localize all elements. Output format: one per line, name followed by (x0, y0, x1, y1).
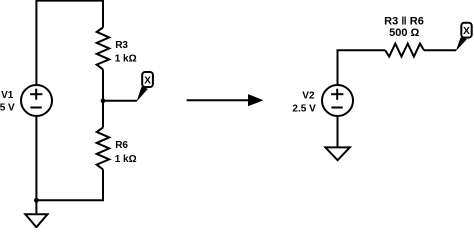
resistor R3 (97, 28, 110, 70)
resistor R6 (97, 128, 110, 170)
ground (right) (325, 147, 349, 160)
svg-text:R3: R3 (115, 40, 128, 51)
voltage source V2 (322, 85, 353, 116)
junction dot node X (101, 98, 106, 103)
wire: R3 bottom to R6 top through node (102, 70, 104, 128)
svg-text:1 kΩ: 1 kΩ (115, 154, 137, 165)
svg-text:5 V: 5 V (0, 103, 15, 114)
junction dot bottom-left (34, 198, 39, 203)
svg-text:V2: V2 (302, 90, 315, 101)
svg-text:R6: R6 (115, 140, 128, 151)
ground (left) (25, 200, 47, 227)
svg-text:2.5 V: 2.5 V (292, 104, 316, 115)
wire: V1 bottom to bottom rail and up to R6 bottom (36, 117, 103, 201)
wire: resistor to node flag X (424, 49, 456, 51)
svg-text:500 Ω: 500 Ω (389, 27, 419, 39)
wire: node X stub to flag (103, 100, 137, 102)
wire: V2 bottom to ground (337, 117, 339, 148)
arrow (circuit transformation) (187, 94, 264, 106)
svg-text:X: X (463, 26, 470, 37)
wire: top rail from V1 top up and across to R3 branch (36, 1, 103, 85)
svg-text:X: X (144, 76, 151, 87)
svg-text:V1: V1 (1, 90, 14, 101)
svg-text:R3 ‖ R6: R3 ‖ R6 (384, 16, 424, 28)
node flag X (right) (456, 23, 472, 52)
svg-text:1 kΩ: 1 kΩ (115, 54, 137, 65)
voltage source V1 (21, 85, 52, 116)
resistor R3 parallel R6 (385, 44, 424, 57)
node flag X (left) (137, 72, 153, 102)
wire: V2 top, L-bend to resistor (338, 50, 386, 84)
